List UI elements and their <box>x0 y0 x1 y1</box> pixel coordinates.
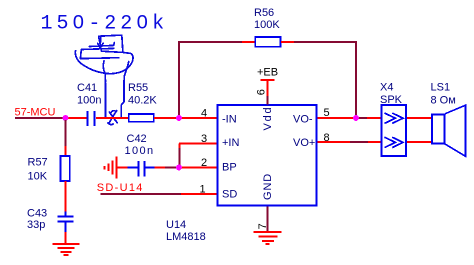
capacitor C41 <box>88 111 95 126</box>
trimmer sketch (freehand annotation) <box>75 35 133 117</box>
plain-zero masks for annotation <box>76 18 81 24</box>
connector X4 body <box>382 105 407 156</box>
connector X4 chevrons pin a <box>385 113 404 123</box>
wire pin1 stub <box>181 193 217 195</box>
svg-text:+IN: +IN <box>222 137 239 149</box>
wire red to C41 <box>65 117 87 119</box>
power bar symbol <box>261 79 275 81</box>
wire to corner <box>294 41 357 43</box>
svg-text:8 Ом: 8 Ом <box>431 95 456 107</box>
svg-text:LM4818: LM4818 <box>166 231 206 243</box>
svg-text:U14: U14 <box>166 219 186 231</box>
wire power stem red <box>267 80 269 96</box>
wire +IN corner vertical <box>179 144 181 149</box>
svg-text:C41: C41 <box>77 82 97 94</box>
svg-text:6: 6 <box>255 89 267 95</box>
svg-text:33p: 33p <box>27 219 45 231</box>
op-amp U14 LM4818 body <box>218 105 317 206</box>
wire feedback right vertical <box>355 42 357 118</box>
svg-text:2: 2 <box>201 157 207 169</box>
wire 57-MCU horizontal <box>15 117 65 119</box>
wire C43 to ground <box>65 232 67 244</box>
svg-text:X4: X4 <box>380 82 393 94</box>
capacitor C42 <box>128 161 155 177</box>
svg-text:10K: 10K <box>28 171 48 183</box>
vertical wire to R57 <box>65 120 67 146</box>
svg-text:SD: SD <box>222 189 237 201</box>
wire pin5 stub <box>318 117 357 119</box>
svg-text:BP: BP <box>222 162 237 174</box>
connector X4 chevrons pin b <box>385 137 404 147</box>
wire red to R56 <box>242 41 255 43</box>
ground GND2 sideways (BP row) <box>105 157 128 179</box>
wire R55 to node A <box>154 117 179 119</box>
svg-text:VO-: VO- <box>293 114 313 126</box>
junction node C (VO-) <box>353 115 359 121</box>
wire C41 to R55 <box>96 117 128 119</box>
svg-text:4: 4 <box>201 108 207 120</box>
svg-text:100n: 100n <box>125 145 155 157</box>
wire pin7 stem <box>267 207 269 232</box>
svg-text:40.2K: 40.2K <box>128 95 157 107</box>
svg-text:-IN: -IN <box>222 114 237 126</box>
wire SD net <box>101 193 182 195</box>
wire pin8 stub <box>318 141 351 143</box>
svg-text:100n: 100n <box>77 95 101 107</box>
svg-text:VO+: VO+ <box>293 137 315 149</box>
svg-text:100K: 100K <box>254 19 280 31</box>
junction node B (BP) <box>176 165 182 171</box>
svg-text:SPK: SPK <box>380 94 403 106</box>
wire pin2 stub <box>179 167 217 169</box>
speaker LS1 body <box>432 115 445 144</box>
svg-text:57-MCU: 57-MCU <box>15 107 56 119</box>
svg-text:LS1: LS1 <box>431 82 451 94</box>
svg-text:C42: C42 <box>127 133 147 145</box>
speaker LS1 cone <box>445 105 466 156</box>
resistor R55 <box>129 114 154 122</box>
svg-text:+EB: +EB <box>257 67 278 79</box>
svg-text:150-220k: 150-220k <box>41 13 169 36</box>
wire feedback vertical <box>178 42 180 118</box>
wire node C to connector <box>356 117 367 119</box>
svg-text:R56: R56 <box>254 7 274 19</box>
svg-text:C43: C43 <box>27 208 47 220</box>
wire pin4 stub <box>179 117 217 119</box>
svg-text:GND: GND <box>262 173 274 200</box>
ground GND3 (pin 7) <box>254 232 282 244</box>
X scribble on node between C41 and R55 <box>108 111 117 125</box>
svg-text:R55: R55 <box>128 82 148 94</box>
svg-text:SD-U14: SD-U14 <box>97 182 144 194</box>
resistor R56 <box>255 37 280 47</box>
capacitor C43 <box>58 212 74 233</box>
wire pin3 stub <box>179 143 217 145</box>
svg-text:3: 3 <box>201 133 207 145</box>
wire power stem maroon <box>267 96 269 105</box>
ground GND1 <box>53 244 80 255</box>
junction node 57-MCU <box>63 115 69 121</box>
R57 bottom lead <box>65 181 67 212</box>
svg-text:1: 1 <box>200 184 206 196</box>
resistor R57 <box>61 156 70 181</box>
R57 top lead <box>65 146 67 156</box>
wire feedback top horizontal <box>178 41 242 43</box>
wire R56 right red <box>281 41 294 43</box>
wire C42 to node B <box>155 167 166 169</box>
junction node A (pin4) <box>176 115 182 121</box>
svg-text:R57: R57 <box>28 157 48 169</box>
svg-text:Vdd: Vdd <box>262 106 274 131</box>
